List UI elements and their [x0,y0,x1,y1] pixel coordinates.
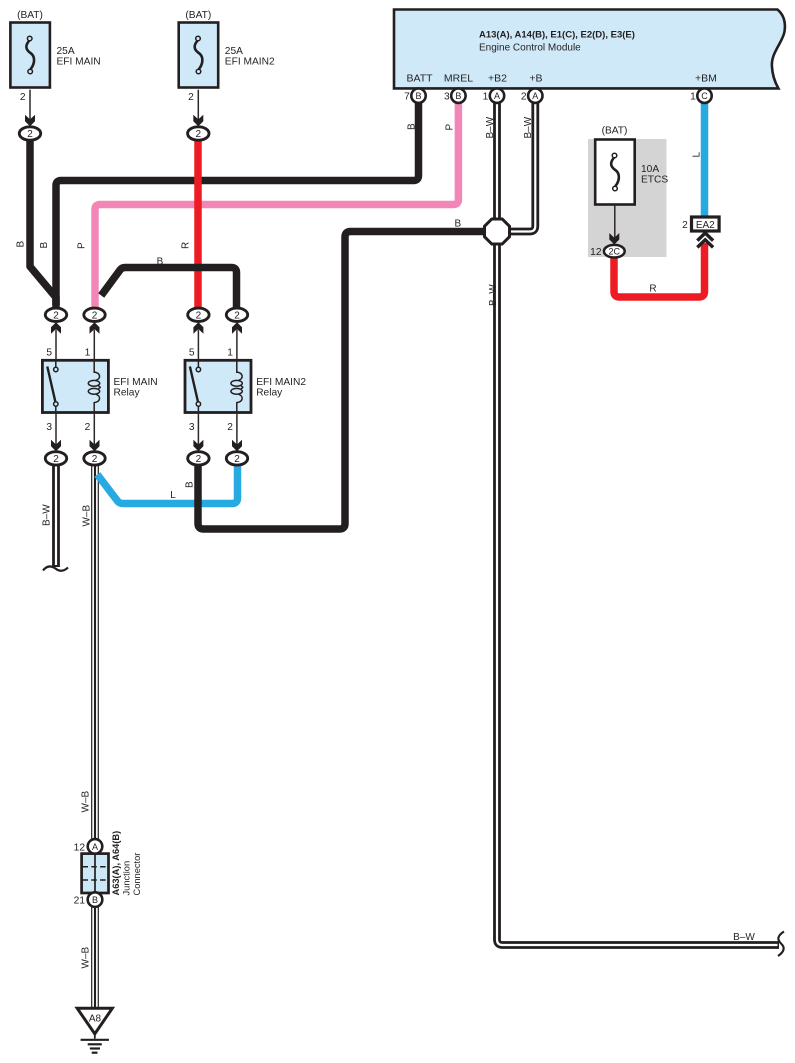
svg-text:B: B [406,123,417,130]
svg-text:B: B [184,481,195,488]
svg-text:3: 3 [189,422,195,433]
connector oval 2C [604,245,625,258]
svg-text:EA2: EA2 [696,220,715,231]
svg-text:1: 1 [690,91,696,102]
wire B from ECM pin BATT down-left to EFI MAIN relay pin 5 [56,100,419,309]
svg-text:2: 2 [85,422,91,433]
svg-text:P: P [444,124,455,131]
svg-text:1: 1 [227,348,233,359]
svg-text:Connector: Connector [132,853,142,896]
svg-text:B–W: B–W [485,116,496,138]
svg-text:B–W: B–W [523,116,534,138]
svg-text:EFI MAIN: EFI MAIN [57,57,101,68]
relay EFI MAIN2 pin 2 connector [236,413,238,445]
svg-text:W–B: W–B [81,791,92,813]
svg-text:A: A [532,91,538,101]
wire L from ECM pin +BM down to connector EA2 [701,100,709,218]
svg-text:7: 7 [404,91,410,102]
wire B from EFI MAIN relay pin 1 to EFI MAIN2 relay pin 1 [101,268,236,310]
ground bars [81,1039,109,1041]
svg-text:+BM: +BM [695,73,717,85]
squiggle end of long B-W wire [778,932,784,957]
svg-text:B: B [415,91,421,101]
svg-text:L: L [170,490,176,501]
svg-text:W–B: W–B [81,947,92,969]
svg-text:10A: 10A [641,164,659,175]
ECM pin 3 B (MREL) [451,89,465,103]
svg-text:(BAT): (BAT) [185,10,211,21]
splice octagon node [485,219,510,244]
wire W-B from EFI MAIN relay pin 2 down to junction connector A [91,465,99,840]
svg-text:1: 1 [85,348,91,359]
svg-text:B–W: B–W [488,284,499,306]
svg-text:Engine Control Module: Engine Control Module [479,43,581,54]
svg-text:P: P [77,242,88,249]
svg-text:B: B [92,895,98,905]
ECM pin 1 A (+B2) [490,89,504,103]
svg-text:B–W: B–W [733,932,755,943]
ground A8 triangle [77,1008,112,1034]
svg-text:C: C [701,91,708,101]
svg-text:R: R [649,283,656,294]
fuse ETCS box [595,140,635,205]
relay EFI MAIN pin 2 connector [93,413,95,445]
relay EFI MAIN pin 3 connector [55,413,57,445]
wire B from EFI MAIN2 relay pin 3 up to splice octagon [198,232,486,530]
svg-text:ETCS: ETCS [641,174,668,185]
svg-text:3: 3 [46,422,52,433]
svg-text:2: 2 [682,220,688,231]
ECM box with torn right edge [394,10,785,89]
squiggle end of B-W wire [43,566,68,570]
male arrows into EA2 [697,233,713,241]
wire B-W stub from ECM pin +B down-left to splice octagon [510,100,535,232]
svg-text:(BAT): (BAT) [602,126,628,137]
wire L from EFI MAIN relay pin 2 to EFI MAIN2 relay pin 2 [97,466,237,504]
svg-text:2: 2 [521,91,527,102]
svg-text:EFI MAIN2: EFI MAIN2 [256,377,306,388]
svg-text:B: B [39,242,50,249]
svg-text:A63(A), A64(B): A63(A), A64(B) [111,831,121,896]
svg-text:2: 2 [227,422,233,433]
svg-text:5: 5 [189,348,195,359]
svg-text:MREL: MREL [444,73,473,85]
wire W-B from junction connector B down to ground A8 [91,906,99,1008]
relay EFI MAIN box [42,360,108,412]
svg-text:+B2: +B2 [488,73,507,85]
svg-text:3: 3 [444,91,450,102]
svg-text:A: A [494,91,500,101]
wire B-W long run from splice octagon down and right to squiggle [497,243,779,945]
svg-text:5: 5 [46,348,52,359]
ECM pin 1 C (+BM) [697,89,711,103]
svg-text:25A: 25A [225,46,243,57]
svg-text:B: B [455,91,461,101]
junction connector A63/A64 box [82,854,109,893]
svg-text:B: B [16,241,27,248]
ETCS fuse output pin line [614,205,616,239]
relay EFI MAIN2 pin 3 connector [197,413,199,445]
svg-text:Junction: Junction [121,861,131,896]
svg-text:BATT: BATT [406,73,433,85]
svg-text:2C: 2C [609,247,621,257]
svg-text:EFI MAIN2: EFI MAIN2 [225,57,275,68]
svg-text:Relay: Relay [256,388,283,399]
relay EFI MAIN2 pin 5 connector [193,322,203,334]
svg-text:(BAT): (BAT) [17,10,43,21]
relay EFI MAIN pin 1 connector [90,322,100,334]
svg-text:W–B: W–B [81,505,92,527]
svg-text:2: 2 [20,92,26,103]
svg-text:12: 12 [590,247,602,258]
wire R from fuse EFI MAIN2 down to EFI MAIN2 relay pin 5 [194,139,202,309]
svg-text:2: 2 [188,92,194,103]
svg-text:L: L [691,152,702,158]
svg-text:EFI MAIN: EFI MAIN [114,377,158,388]
relay EFI MAIN pin 5 connector [51,322,61,334]
svg-text:B: B [454,218,461,229]
svg-text:25A: 25A [57,46,75,57]
svg-text:B–W: B–W [41,504,52,526]
wire B from fuse EFI MAIN joining relay pin 5 line [30,139,56,305]
fuse EFI MAIN2 output pin line [197,90,199,120]
fuse EFI MAIN output pin line [29,90,31,120]
relay EFI MAIN2 pin 1 connector [232,322,242,334]
wire B-W from EFI MAIN relay pin 3 down to end squiggle [52,465,60,567]
fuse EFI MAIN box [10,23,50,88]
gray background box around ETCS fuse [588,139,667,257]
junction connector pin A circle [88,839,103,854]
svg-text:B: B [157,256,164,267]
wire B-W stub from ECM pin +B2 down to splice octagon [493,100,501,220]
fuse EFI MAIN2 box [179,23,219,88]
svg-text:21: 21 [74,896,86,907]
svg-text:A13(A), A14(B), E1(C), E2(D),: A13(A), A14(B), E1(C), E2(D), E3(E) [479,30,635,41]
wire R from ETCS fuse connector down and right up to EA2 arrows [614,243,705,297]
ECM pin 7 B (BATT) [411,89,425,103]
svg-text:12: 12 [74,842,86,853]
svg-text:R: R [181,242,192,249]
svg-text:1: 1 [483,91,489,102]
svg-text:A: A [92,842,98,852]
svg-text:Relay: Relay [114,388,141,399]
relay EFI MAIN2 box [185,360,251,412]
svg-text:A8: A8 [89,1013,102,1024]
junction connector pin B circle [88,892,103,907]
svg-text:+B: +B [529,73,542,85]
connector EA2 box [692,217,720,231]
ECM pin 2 A (+B) [528,89,542,103]
wire P from ECM pin MREL down-left to EFI MAIN relay pin 1 [95,100,458,309]
